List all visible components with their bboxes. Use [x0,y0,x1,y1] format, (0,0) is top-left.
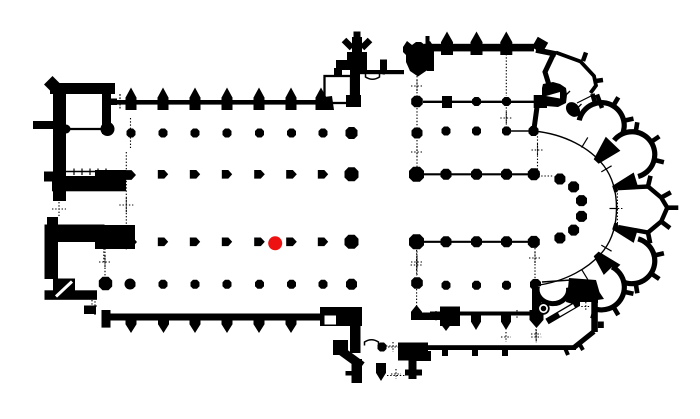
south transept buttress [376,363,386,381]
se east bar [591,302,598,332]
south choir pier 446 [441,310,451,325]
nave column row4 x259.5 [255,280,264,289]
south transept nw corner [320,307,362,326]
south aisle cross [431,315,441,317]
sw transition chapel [537,286,569,304]
south transept east wall [409,351,417,379]
west middle wing upper block [95,170,126,191]
choir row4 end column [530,279,541,290]
se square top border [579,295,598,303]
north transept west wall [350,69,360,97]
south choir buttress 506 [501,312,511,331]
dotted se apse [534,248,536,279]
dotted transept middle [416,108,418,130]
south transept sw diagonal [340,350,362,366]
ne outer wall link [597,95,602,109]
ne outer wall south leg [545,53,554,85]
nave column row1 x163 [159,129,168,138]
ambulatory pier at -16.8 deg [612,173,639,193]
nave column row2 x259.5 [254,170,265,179]
se diag tick 2 [579,343,583,350]
north transept portal pier [347,52,367,70]
transept east col row1b [412,128,423,139]
crossing pier east row3 [409,234,424,249]
south transept west wall [350,320,361,353]
south wall buttress 6 [286,314,297,334]
ne pier 1 wedge [546,92,560,99]
north wall buttress 3 [190,88,201,111]
se white square [580,302,592,312]
south transept west wall low [352,359,363,383]
west lower wing west wall [45,242,59,279]
south wall buttress 4 [222,314,233,334]
choir column row1 x476.5 [472,127,481,136]
se east bar tick [598,322,604,329]
south nave wall [104,314,330,321]
choir row3 line [416,241,534,243]
north choir buttress 3 [500,32,512,56]
se square cross [581,306,590,308]
north wall buttress 5 [254,88,265,111]
choir column row2 x446 [441,169,452,180]
south transept east ledge [415,351,431,361]
choir row1 line [505,130,534,132]
north transept west angle [334,68,342,77]
se stair turret [537,302,549,314]
ambulatory opening tick a-59 [582,137,588,147]
choir column row4 x446 [442,281,451,290]
crossing pier west row3 [345,235,359,249]
ne chapel tick up [583,53,586,62]
crossing pier northeast mass [403,41,434,77]
nw crossing corner blob [316,96,334,110]
red location marker [268,236,282,250]
radiating chapel at -33.6 deg [614,132,655,177]
northwest tower southwest pier [62,125,71,134]
choir ne thick link [534,107,537,129]
nave column row3 x323 [318,238,328,247]
ne pier 2 [563,99,583,119]
northwest tower north wall [50,83,115,94]
dotted axial chapel [616,190,618,224]
south wall buttress 5 [254,314,265,334]
north aisle wall line [423,101,534,103]
southwest pier blob [99,277,112,290]
dotted north transept [416,76,418,98]
south transept post [378,343,387,352]
hemicycle column 2 [568,181,579,192]
crossing pier southwest [346,279,357,290]
choir column row4 x506.5 [502,281,511,290]
west lower wing column point [125,237,137,247]
hemicycle column 5 [568,225,579,236]
south wall dotted [386,345,400,347]
nave column row4 x195 [191,280,200,289]
choir column row3 x446 [441,236,452,247]
dotted sw area [103,245,105,262]
nave column row3 x163 [158,238,168,247]
north wall buttress 1 [126,88,137,111]
south cross 1 [501,336,511,338]
west lower wing nub [47,217,58,225]
hemicycle dotted link [538,175,554,177]
north transept post [380,60,387,71]
north transept north wall [360,70,404,74]
se chapel mouth wedge [591,287,604,301]
choir row1 end column [529,126,539,136]
se outer diagonal band [547,301,582,322]
south transept door arc [365,340,379,346]
north wall buttress 4 [222,88,233,111]
nave column row4 x227 [223,280,232,289]
north transept west wall foot [346,95,361,107]
ambulatory opening tick a31 [601,245,611,251]
south transept cross [388,346,398,348]
ambulatory pier at 16.8 deg [612,223,639,243]
north aisle pier 447 [442,96,452,108]
crossing ne tick [426,36,430,46]
northwest tower pinnacle [44,76,61,93]
south wall buttress 3 [190,314,201,334]
south cross 2 [531,333,541,335]
south choir outer wall [424,345,576,350]
radiating chapel at 33.6 deg [614,239,655,284]
north transept door arc [366,74,380,79]
west stub wall north [33,121,54,129]
ambulatory outer line [534,131,617,286]
dotted line west wing [125,152,127,250]
south aisle pillar [411,305,422,320]
ne door hatch 1 [565,91,570,96]
north wall buttress 6 [286,88,297,111]
se stair ring [540,305,547,312]
choir column row2 x506.5 [501,169,512,180]
dotted north choir bay [505,54,507,96]
nave column row1 x227 [223,129,232,138]
se diag tick 1 [565,348,568,355]
ne door hatch 2 [576,104,582,110]
crossing pier west row2 [345,167,359,181]
choir column row3 x506.5 [501,236,512,247]
north aisle column 506 [502,97,511,106]
nw crossing square outline [325,76,352,103]
south outer tick 2 [472,350,478,356]
se diagonal wall [574,332,594,348]
nave column row1 x259.5 [255,129,264,138]
south outer tick 3 [502,350,508,356]
west middle wing column point [124,170,136,180]
north choir buttress 2 [471,32,483,56]
south wall buttress 1 [126,314,137,334]
northwest tower southeast pier [101,122,115,136]
choir se thick link [532,287,541,313]
west middle wing [52,176,126,191]
radiating chapel at 59 deg [581,267,624,310]
crossing pier east row2 [409,167,424,182]
ambulatory opening tick a-31 [601,166,611,172]
choir column row1 x506.5 [502,127,511,136]
northwest tower west wall [53,83,66,201]
south transept east foot [405,370,422,376]
south transept corner block [440,307,460,327]
nave column row3 x227 [222,238,232,247]
nave column row3 x195 [190,238,200,247]
hemicycle column 3 [576,195,587,206]
ne pier 1 [542,82,567,107]
north wall buttress 2 [158,88,169,111]
choir row2 end column [528,168,540,180]
north choir wall [424,44,534,52]
northwest tower south line [64,128,104,130]
south wall buttress 2 [158,314,169,334]
choir column row2 x476.5 [471,169,482,180]
north inner pier mass [534,95,547,108]
south transept west foot [346,371,363,376]
ambulatory pier at -46.3 deg [594,137,621,164]
dotted ne apse [537,133,539,172]
transept east col row4b [411,277,423,289]
south outer tick 1 [442,350,448,356]
choir row2 line [416,173,540,175]
west wall middle gap end [53,191,66,201]
choir row3 end column [528,236,540,248]
crossing ne shoulder [427,51,435,71]
west lower wing upper block [95,225,135,249]
nave column row1 x323 [319,129,328,138]
transept ne column [411,96,423,107]
dotted cross west low [104,242,106,280]
north choir diag pinnacle [532,37,548,53]
south outer buttress [530,310,544,328]
northwest tower east wall [102,83,111,134]
ne chapel tick right [596,80,604,81]
nave column row2 x323 [318,170,328,179]
north nave wall [110,100,332,105]
south porch bar [102,310,111,328]
north choir buttress 1 [441,32,453,56]
nave column row4 first [127,280,136,289]
south transept sw corner mass [333,340,348,355]
dotted below south buttress [535,330,537,343]
radiating chapel at -59 deg [579,103,624,143]
ne transition chapel wall [556,53,596,94]
north choir diagonal wall [536,50,556,54]
south transept se block [398,343,428,361]
south porch piece [84,306,96,315]
ambulatory pier at 46.3 deg [594,252,621,279]
se pier mass [566,278,600,308]
dotted cross west mid [52,208,66,210]
north transept west wall block [336,60,350,70]
choir column row3 x476.5 [471,236,482,247]
se white slash [559,306,574,315]
nave column row1 x291.5 [287,129,296,138]
south choir buttress 476 [471,312,481,331]
west lower wing [45,225,105,243]
southwest square annex [53,279,75,300]
ne thin line [577,96,591,103]
nave column row2 x227 [222,170,232,179]
nave column row4 x323 [319,280,328,289]
nave column row2 x163 [158,170,168,179]
south choir tick dotted [516,310,518,318]
southwest round column [125,279,136,290]
dotted south transept axis [416,289,418,308]
north aisle column 476 [472,97,481,106]
south choir aisle line [430,312,540,316]
choir column row1 x446 [442,127,451,136]
ambulatory opening tick a59 [582,269,588,279]
nave column row4 x291.5 [287,280,296,289]
hemicycle column 1 [554,174,565,185]
southwest lower bar [45,290,98,300]
nave column row2 x291.5 [286,170,297,179]
hemicycle column 4 [576,211,587,222]
west middle wing stub [44,172,54,182]
nave column row1 x195 [191,129,200,138]
nave column row4 x163 [159,280,168,289]
nave column row3 x291.5 [286,238,297,247]
crossing pier northwest [346,127,358,139]
north wall buttress 7 [316,88,327,111]
nave column row3 x259.5 [254,238,265,247]
hemicycle column 6 [554,233,565,244]
south transept corner notch [325,316,337,325]
dotted cross nw bay [113,101,127,103]
choir row4 end line [542,280,571,282]
nave column row2 x195 [190,170,200,179]
south aisle wall east [422,313,445,321]
nave column row1 first [127,129,136,138]
choir column row4 x476.5 [472,281,481,290]
tower-nave link wall [109,99,117,106]
stair tick line [66,171,108,173]
ambulatory opening tick a0 [610,208,622,210]
axial chapel [617,187,667,233]
